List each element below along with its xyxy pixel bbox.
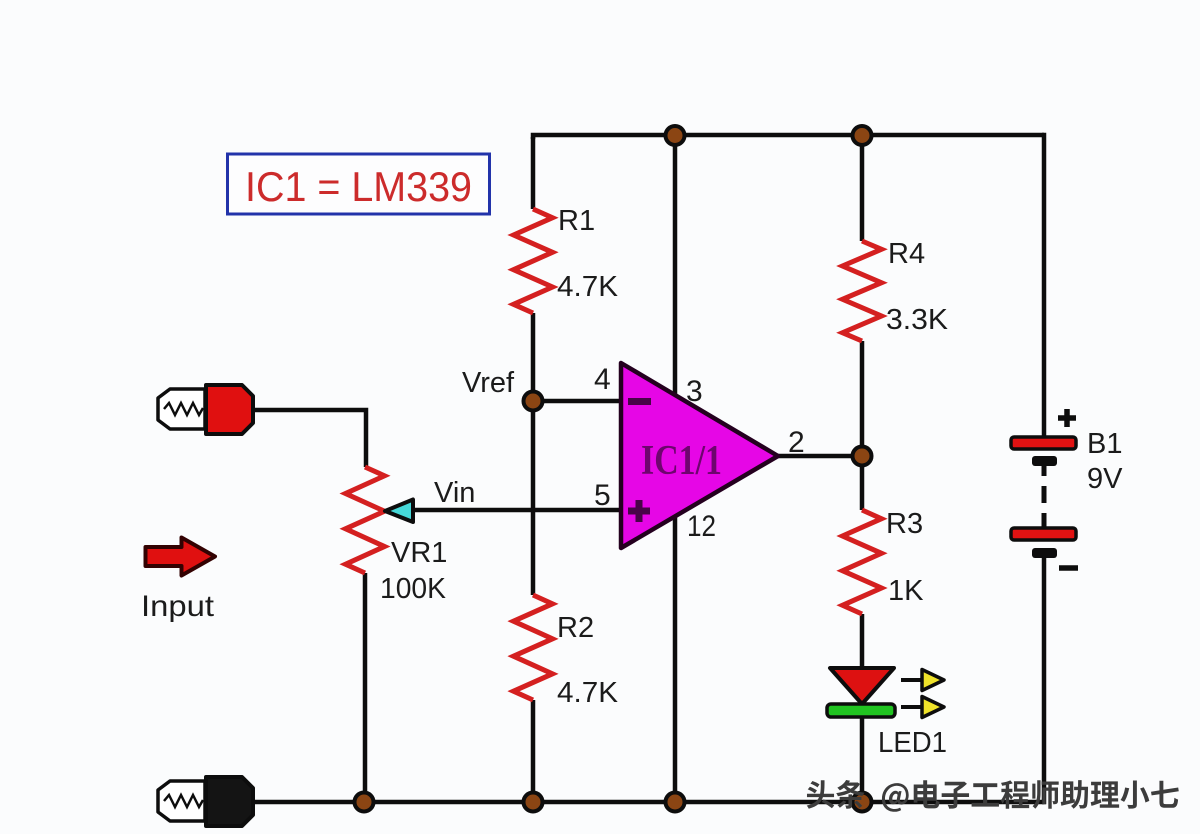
LED1 triangle [830, 668, 894, 704]
label box IC1 = LM339 [228, 154, 490, 214]
svg-text:4.7K: 4.7K [557, 677, 619, 709]
wire pin3 to pin12 vertical (op-amp supply line) [673, 135, 678, 802]
svg-text:1K: 1K [888, 575, 924, 607]
svg-text:4: 4 [594, 363, 611, 396]
LED1 cathode bar [827, 704, 895, 717]
svg-text:100K: 100K [380, 573, 447, 605]
wire LED to bottom rail [860, 714, 865, 802]
junction dot bottom rail / LED [853, 793, 872, 812]
svg-text:IC1 = LM339: IC1 = LM339 [245, 163, 472, 210]
wire right rail upper (to battery +) [1042, 135, 1044, 437]
op-amp U1 triangle IC1/1 [621, 363, 778, 548]
wire R4 bottom to output node [860, 341, 865, 456]
battery B1 plate - short (top cell) [1032, 456, 1057, 466]
svg-text:3: 3 [686, 375, 703, 408]
Input arrow [146, 538, 216, 576]
red input plug body [206, 385, 253, 434]
battery B1 plate + long (bottom cell) [1011, 528, 1076, 540]
wire op-amp output to node [776, 454, 862, 459]
junction node output pin2 [853, 447, 872, 466]
svg-text:LED1: LED1 [878, 727, 947, 759]
junction dot bottom rail / VR1 [355, 793, 374, 812]
battery plus sign [1058, 409, 1076, 427]
battery B1 plate - short (bottom cell) [1032, 548, 1057, 558]
junction dot top rail / R4 [853, 126, 872, 145]
svg-text:R1: R1 [558, 205, 595, 237]
svg-text:4.7K: 4.7K [557, 271, 619, 303]
svg-text:Vref: Vref [462, 367, 515, 399]
black input plug tip spring [164, 795, 203, 807]
svg-text:R3: R3 [886, 508, 923, 540]
resistor R3 [843, 510, 882, 614]
watermark 头条 @电子工程师助理小七 [807, 780, 1179, 812]
resistor R2 [514, 595, 553, 700]
red input plug tip [158, 389, 205, 429]
svg-text:5: 5 [594, 479, 611, 512]
wire bottom rail [253, 800, 1044, 805]
svg-text:2: 2 [788, 426, 805, 459]
resistor R4 [843, 241, 882, 341]
black input plug tip [158, 781, 205, 821]
wire red plug to VR1 top [252, 410, 366, 467]
wire output node to R3 top [860, 456, 865, 510]
svg-text:12: 12 [687, 510, 716, 543]
wire Vref node to pin4 [533, 399, 623, 404]
junction node Vref [524, 392, 543, 411]
svg-text:R2: R2 [557, 612, 594, 644]
svg-text:Input: Input [141, 590, 215, 623]
svg-text:Vin: Vin [434, 477, 475, 509]
wire R1 bottom to Vref to R2 top [531, 313, 536, 595]
black input plug body [206, 777, 253, 826]
op-amp plus input mark [628, 500, 650, 522]
wire top rail [533, 135, 1044, 139]
svg-text:9V: 9V [1087, 463, 1123, 495]
op-amp minus input mark [628, 398, 651, 405]
battery B1 plate + long (top cell) [1011, 437, 1076, 449]
svg-text:3.3K: 3.3K [886, 304, 949, 336]
svg-text:IC1/1: IC1/1 [641, 438, 722, 484]
resistor R1 [514, 209, 553, 313]
junction dot top rail / pin3 line [666, 126, 685, 145]
wire Vin wiper to pin5 [413, 508, 623, 513]
wire R3 bottom to LED [860, 614, 865, 672]
svg-text:VR1: VR1 [391, 537, 447, 569]
VR1 wiper arrow [385, 500, 413, 523]
LED light arrow upper [901, 670, 944, 691]
wire right rail lower (battery - to bottom rail) [1042, 556, 1044, 802]
LED light arrow lower [901, 697, 944, 718]
wire R2 bottom lead to bottom rail [531, 700, 536, 802]
wire R4 top lead [860, 135, 865, 241]
battery minus sign [1059, 565, 1078, 571]
battery dashed link [1042, 466, 1047, 527]
junction dot bottom rail / R2 [524, 793, 543, 812]
svg-text:R4: R4 [888, 238, 925, 270]
junction dot bottom rail / pin12 line [666, 793, 685, 812]
wire VR1 bottom to bottom rail [363, 573, 368, 802]
potentiometer VR1 [346, 467, 385, 573]
wire R1 top lead [531, 137, 536, 209]
red input plug tip spring [164, 403, 203, 415]
svg-text:B1: B1 [1087, 428, 1122, 460]
